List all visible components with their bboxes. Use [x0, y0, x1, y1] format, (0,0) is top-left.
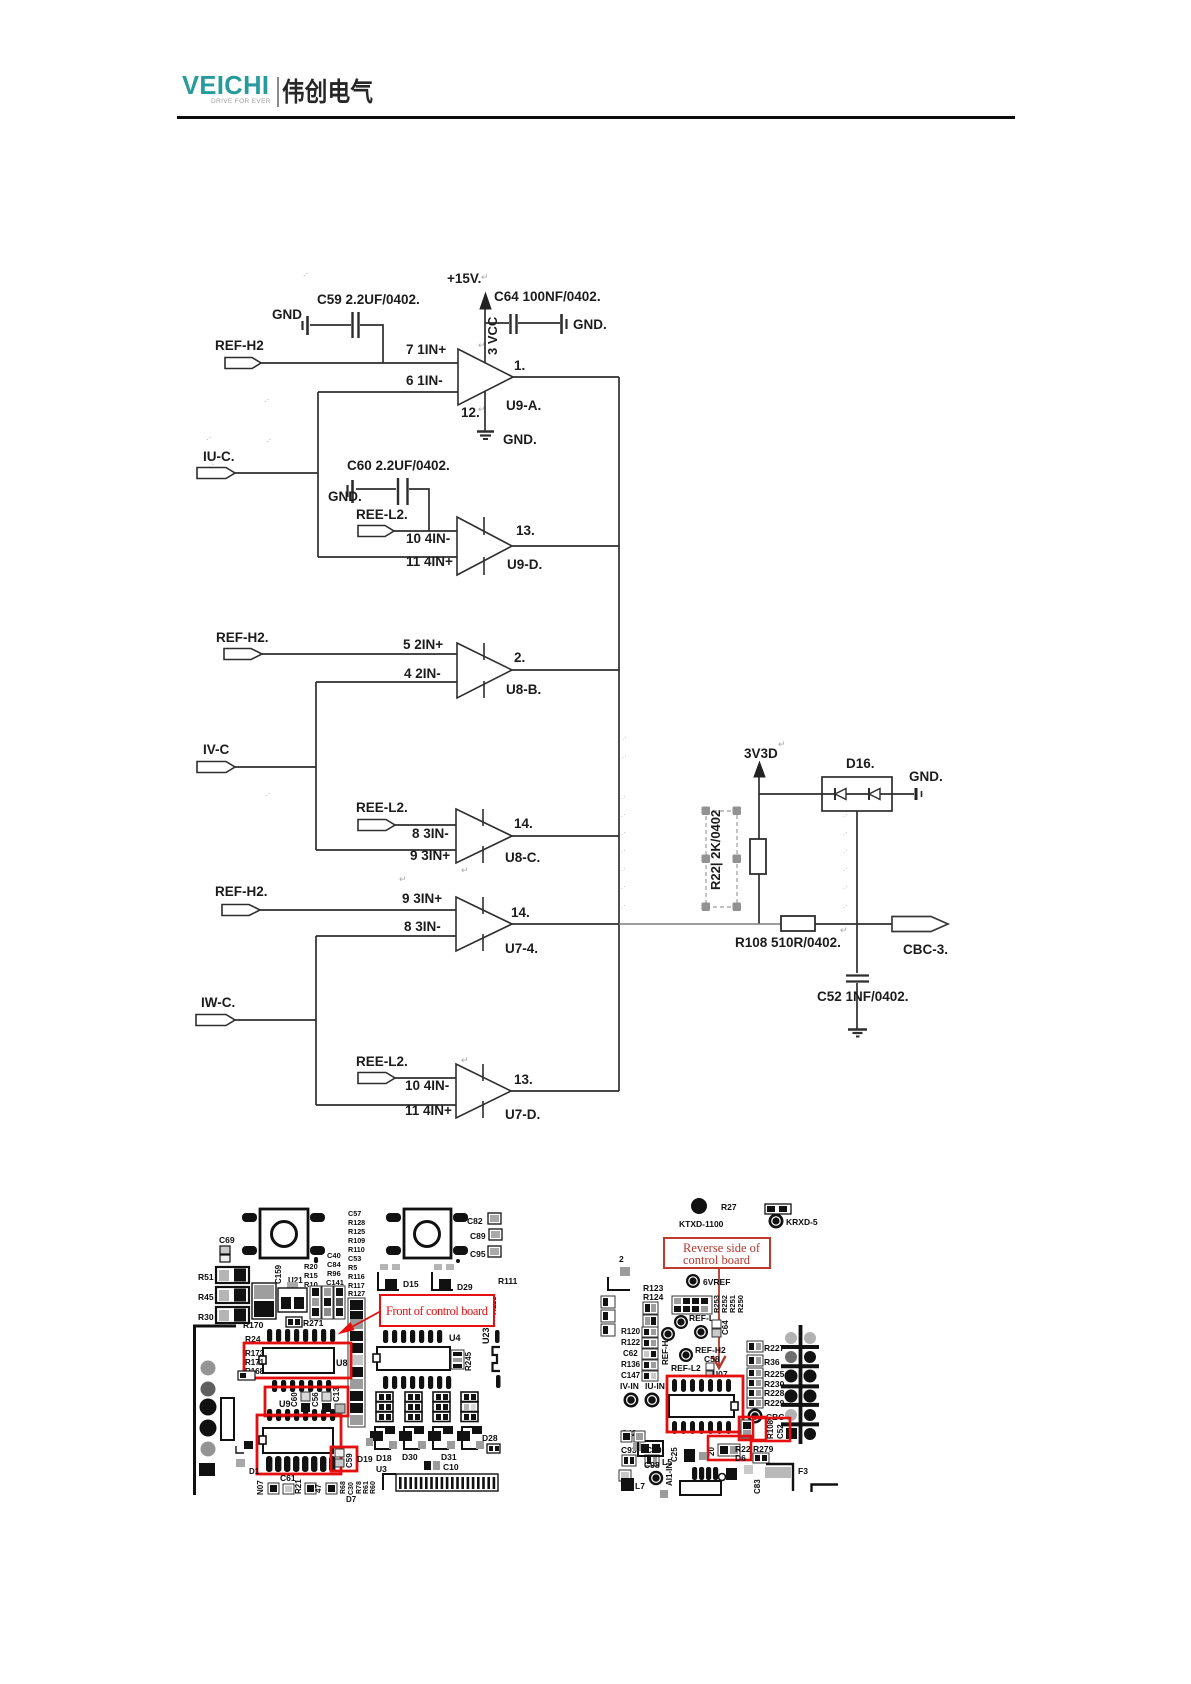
- svg-text:1.: 1.: [514, 358, 525, 373]
- bottom connector comb: [383, 1474, 498, 1491]
- component cluster row C: [433, 1392, 450, 1422]
- svg-text:IU-C.: IU-C.: [203, 449, 235, 464]
- annotation arrow down: [713, 1268, 726, 1368]
- svg-text:C53: C53: [348, 1254, 361, 1263]
- svg-text:R60: R60: [370, 1481, 377, 1494]
- svg-text:C159: C159: [274, 1264, 283, 1284]
- svg-text:.·: .·: [843, 864, 848, 873]
- top resistor component: [721, 1202, 791, 1214]
- push button S1: [242, 1209, 325, 1261]
- component below U8 left: [238, 1371, 255, 1380]
- svg-text:.·: .·: [843, 882, 848, 891]
- resistor R22: [750, 839, 766, 874]
- annotation box C59: [331, 1447, 357, 1471]
- svg-text:11 4IN+: 11 4IN+: [405, 1103, 452, 1118]
- via KRXD-5: [769, 1214, 818, 1229]
- svg-text:↵: ↵: [481, 272, 489, 282]
- capacitor C10: [424, 1461, 459, 1472]
- capacitors C60 C56 inside U9 region: [279, 1387, 345, 1413]
- wire D16 internal: [822, 793, 892, 795]
- svg-text:.·: .·: [843, 810, 848, 819]
- svg-text:U7-D.: U7-D.: [505, 1107, 540, 1122]
- svg-text:R51: R51: [198, 1272, 214, 1282]
- node IW-C: [196, 995, 235, 1026]
- svg-text:R78: R78: [356, 1481, 363, 1494]
- diode row D30 D31 D28: [366, 1426, 500, 1462]
- diode D15: [378, 1264, 419, 1290]
- resistor R51: [198, 1267, 249, 1283]
- svg-text:REE-L2.: REE-L2.: [356, 507, 408, 522]
- svg-text:↵: ↵: [840, 925, 848, 935]
- pad KTXD-1100: [679, 1198, 724, 1229]
- svg-text:C84: C84: [327, 1260, 342, 1269]
- component L-box left: [633, 1441, 672, 1470]
- svg-text:U3: U3: [376, 1464, 387, 1474]
- svg-text:R108 510R/0402.: R108 510R/0402.: [735, 935, 841, 950]
- svg-text:R22| 2K/0402: R22| 2K/0402: [708, 810, 723, 890]
- svg-text:.·: .·: [622, 751, 627, 760]
- transistor U21: [278, 1282, 307, 1312]
- wire REE-L2 to pin8 U8-C: [394, 824, 456, 826]
- svg-text:C82: C82: [467, 1216, 483, 1226]
- svg-text:↵: ↵: [461, 865, 469, 875]
- svg-text:C59: C59: [345, 1453, 354, 1468]
- resistors R123 R124: [643, 1283, 664, 1327]
- svg-text:R36: R36: [764, 1357, 780, 1367]
- bottom passives row: [256, 1473, 377, 1504]
- wire U8-C output: [512, 835, 619, 837]
- IC U8 pin row top: [245, 1329, 335, 1344]
- svg-text:.·: .·: [621, 901, 626, 910]
- svg-text:R21: R21: [294, 1479, 303, 1494]
- resistor R279: [753, 1444, 774, 1463]
- svg-text:C59 2.2UF/0402.: C59 2.2UF/0402.: [317, 292, 420, 307]
- svg-text:C40: C40: [327, 1251, 341, 1260]
- svg-text:R171: R171: [245, 1358, 265, 1367]
- svg-text:R245: R245: [464, 1351, 473, 1371]
- left board connector: [195, 1326, 237, 1495]
- annotation box U8: [244, 1343, 351, 1378]
- svg-text:D29: D29: [457, 1282, 473, 1292]
- IC U4 pin row bottom: [383, 1376, 451, 1389]
- svg-text:.·: .·: [843, 828, 848, 837]
- svg-text:.·: .·: [621, 828, 626, 837]
- header slogan: [211, 99, 271, 106]
- power 3V3D: [744, 746, 778, 777]
- svg-text:U9-D.: U9-D.: [507, 557, 542, 572]
- svg-text:C60: C60: [290, 1392, 299, 1407]
- wire IW-C: [235, 1019, 316, 1021]
- wire U9-D output: [512, 545, 619, 547]
- svg-text:D1: D1: [249, 1467, 260, 1476]
- wire U7-4 output: [512, 923, 619, 925]
- svg-text:Front of control board: Front of control board: [386, 1304, 489, 1318]
- svg-text:IW-C.: IW-C.: [201, 995, 235, 1010]
- svg-text:9 3IN+: 9 3IN+: [402, 891, 442, 906]
- svg-text:R128: R128: [348, 1218, 365, 1227]
- wire VCC through U9-A: [484, 309, 486, 431]
- svg-text:6 1IN-: 6 1IN-: [406, 373, 443, 388]
- svg-text:C98: C98: [644, 1460, 660, 1470]
- svg-text:.·: .·: [621, 792, 626, 801]
- IC U9 pin row: [267, 1409, 335, 1421]
- svg-text:U9: U9: [279, 1399, 291, 1409]
- wire REE-L2 to pin10 U9-D: [394, 530, 457, 532]
- svg-text:13.: 13.: [514, 1072, 533, 1087]
- component cluster row D: [461, 1392, 478, 1422]
- svg-text:.·: .·: [206, 432, 212, 442]
- labels C42 C93 C90: [621, 1428, 662, 1466]
- wire U8-B output: [512, 669, 619, 671]
- svg-text:C52: C52: [776, 1424, 785, 1439]
- svg-text:GND.: GND.: [503, 432, 537, 447]
- wire REF-H2 to pin9 U7-4: [260, 909, 456, 911]
- annotation box R108 C52: [739, 1417, 790, 1441]
- svg-text:7 1IN+: 7 1IN+: [406, 342, 446, 357]
- IC U4 pin row top: [383, 1330, 461, 1343]
- capacitor C64: [494, 289, 607, 334]
- op-amp U7-D: [405, 1064, 540, 1122]
- svg-text:CBC-3.: CBC-3.: [903, 942, 948, 957]
- svg-text:↵: ↵: [461, 1055, 469, 1065]
- svg-text:8 3IN-: 8 3IN-: [404, 919, 441, 934]
- header divider: [277, 77, 279, 107]
- svg-text:↵: ↵: [478, 404, 486, 414]
- svg-text:R109: R109: [348, 1236, 365, 1245]
- svg-text:R122: R122: [621, 1338, 641, 1347]
- op-amp U7-4: [402, 891, 538, 956]
- svg-text:KRXD-5: KRXD-5: [786, 1217, 818, 1227]
- svg-text:R250: R250: [736, 1295, 745, 1313]
- svg-text:REE-L2.: REE-L2.: [356, 800, 408, 815]
- svg-text:R111: R111: [498, 1276, 518, 1286]
- labels D19 D18 U3: [357, 1453, 392, 1474]
- wire U9-A output: [513, 376, 619, 378]
- push button S2: [386, 1209, 468, 1263]
- svg-text:R136: R136: [621, 1360, 641, 1369]
- svg-text:U4: U4: [449, 1333, 461, 1343]
- svg-text:.·: .·: [621, 846, 626, 855]
- IC U3 body: [259, 1428, 333, 1453]
- resistor R45: [198, 1287, 249, 1303]
- wire C64 tap: [485, 322, 560, 324]
- wire D16 to GND port: [892, 793, 914, 795]
- wire REE-L2 to pin10 U7-D: [394, 1077, 456, 1079]
- svg-text:C52 1NF/0402.: C52 1NF/0402.: [817, 989, 909, 1004]
- svg-text:.·: .·: [265, 788, 271, 798]
- wire D16 center drop to C52: [856, 794, 858, 1029]
- svg-text:REF-L: REF-L: [689, 1313, 714, 1323]
- GND port right of D16: [909, 769, 943, 800]
- annotation box U3: [257, 1415, 341, 1474]
- header rule: [177, 116, 1015, 119]
- IC U7 pin row top: [672, 1379, 731, 1392]
- svg-text:N07: N07: [256, 1480, 265, 1495]
- svg-text:5 2IN+: 5 2IN+: [403, 637, 443, 652]
- node REF-H2 (3): [215, 884, 268, 916]
- annotation label front of control board: [380, 1295, 494, 1326]
- svg-text:R27: R27: [721, 1202, 737, 1212]
- svg-text:GND.: GND.: [573, 317, 607, 332]
- svg-text:R125: R125: [348, 1227, 365, 1236]
- label column R120..C147: [621, 1327, 658, 1381]
- left small component rows: [619, 1431, 645, 1481]
- svg-text:R45: R45: [198, 1292, 214, 1302]
- wire pin11 U9-D: [318, 556, 457, 558]
- annotation arrow to U8: [348, 1311, 381, 1329]
- node IV-C: [197, 742, 235, 773]
- svg-text:6VREF: 6VREF: [703, 1277, 730, 1287]
- svg-text:.·: .·: [843, 846, 848, 855]
- ground under U9-A: [477, 432, 537, 448]
- resistor column R227 R36 R225 R230 R228 R229: [747, 1341, 785, 1408]
- svg-text:D6: D6: [735, 1453, 746, 1463]
- svg-text:↵: ↵: [399, 874, 407, 884]
- svg-text:R228: R228: [764, 1388, 785, 1398]
- wire IW-C vertical bus: [315, 936, 317, 1105]
- svg-text:U8-C.: U8-C.: [505, 850, 540, 865]
- svg-text:R127: R127: [348, 1289, 365, 1298]
- svg-text:R30: R30: [198, 1312, 214, 1322]
- svg-text:REF-H2.: REF-H2.: [216, 630, 269, 645]
- IC U3 pin row bottom: [266, 1456, 335, 1472]
- svg-text:R225: R225: [764, 1369, 785, 1379]
- svg-text:control board: control board: [683, 1253, 751, 1267]
- capacitor C60: [328, 458, 450, 505]
- formatting mark columns: [621, 733, 848, 910]
- svg-text:↵: ↵: [478, 340, 486, 350]
- svg-text:.·: .·: [621, 864, 626, 873]
- silk label column R20 R15 R10: [304, 1259, 318, 1289]
- wire pin11 U7-D: [316, 1104, 456, 1106]
- svg-text:C95: C95: [470, 1249, 486, 1259]
- svg-text:.·: .·: [843, 901, 848, 910]
- svg-text:2.: 2.: [514, 650, 525, 665]
- svg-text:R68: R68: [340, 1481, 347, 1494]
- svg-text:REF-H2.: REF-H2.: [215, 884, 268, 899]
- IC U8 pin row bottom: [272, 1380, 331, 1392]
- svg-text:GND: GND: [272, 307, 302, 322]
- node REF-H2 (1): [215, 338, 264, 369]
- annotation label reverse side of control board: [664, 1238, 770, 1268]
- svg-text:D16.: D16.: [846, 756, 875, 771]
- diode D29: [432, 1264, 473, 1292]
- annotation box U7: [667, 1376, 743, 1432]
- wire bus to R108 (light): [619, 923, 781, 925]
- via REF-H2 C58: [679, 1345, 728, 1379]
- wire D16 left lead: [759, 793, 822, 795]
- svg-text:U9-A.: U9-A.: [506, 398, 541, 413]
- vias IV-IN IU-IN: [620, 1381, 665, 1408]
- svg-text:R20: R20: [304, 1262, 318, 1271]
- svg-text:C64 100NF/0402.: C64 100NF/0402.: [494, 289, 601, 304]
- svg-text:U23: U23: [481, 1327, 491, 1344]
- svg-text:U8: U8: [336, 1358, 348, 1368]
- capacitors C82 C89 C95: [467, 1213, 502, 1259]
- wire pin6 U9-A: [318, 391, 458, 393]
- svg-text:R110: R110: [348, 1245, 365, 1254]
- svg-text:KTXD-1100: KTXD-1100: [679, 1219, 724, 1229]
- svg-text:C83: C83: [753, 1479, 762, 1494]
- svg-text:47: 47: [314, 1484, 323, 1493]
- capacitor C59: [272, 292, 420, 338]
- svg-text:D30: D30: [402, 1452, 418, 1462]
- wire IU-C vertical bus: [317, 392, 319, 557]
- svg-text:R5: R5: [348, 1263, 357, 1272]
- node CBC-3: [892, 917, 948, 958]
- node REE-L2 (2): [356, 800, 408, 831]
- svg-text:R61: R61: [363, 1481, 370, 1494]
- resistor R271: [286, 1317, 324, 1328]
- resistor R108: [735, 916, 841, 950]
- svg-text:R108: R108: [766, 1419, 775, 1439]
- fuse F3: [765, 1464, 838, 1492]
- svg-text:3 VCC: 3 VCC: [485, 316, 500, 355]
- via CBC: [748, 1409, 785, 1424]
- silk label column C57..R127: [348, 1209, 365, 1298]
- svg-text:C60 2.2UF/0402.: C60 2.2UF/0402.: [347, 458, 450, 473]
- svg-text:3V3D: 3V3D: [744, 746, 778, 761]
- svg-text:C57: C57: [348, 1209, 361, 1218]
- node REE-L2 (1): [356, 507, 408, 537]
- capacitor C25: [670, 1447, 707, 1462]
- inductor L7: [621, 1478, 645, 1491]
- svg-text:.·: .·: [209, 459, 215, 469]
- svg-text:AI1-IN: AI1-IN: [665, 1463, 674, 1486]
- svg-text:D15: D15: [403, 1279, 419, 1289]
- header logo VEICHI: [182, 74, 269, 100]
- svg-text:10 4IN-: 10 4IN-: [405, 1078, 449, 1093]
- svg-text:C147: C147: [621, 1371, 641, 1380]
- op-amp U9-D: [406, 517, 542, 575]
- component strip column: [348, 1298, 365, 1427]
- resistor R30: [198, 1307, 249, 1323]
- wire REF-H2 to pin5 U8-B: [262, 653, 457, 655]
- IC U7 body: [669, 1395, 738, 1417]
- svg-text:C56: C56: [311, 1392, 320, 1407]
- svg-text:IU-IN: IU-IN: [645, 1381, 665, 1391]
- svg-text:12.: 12.: [461, 405, 480, 420]
- svg-text:IV-IN: IV-IN: [620, 1381, 639, 1391]
- svg-text:C10: C10: [443, 1462, 459, 1472]
- svg-text:R96: R96: [327, 1269, 341, 1278]
- svg-text:C13: C13: [332, 1387, 341, 1402]
- svg-text:R170: R170: [243, 1320, 264, 1330]
- svg-text:D28: D28: [482, 1433, 498, 1443]
- svg-text:REF-H2: REF-H2: [215, 338, 264, 353]
- svg-text:U7-4.: U7-4.: [505, 941, 538, 956]
- IC U7 pin row bottom: [672, 1421, 731, 1434]
- svg-text:GND.: GND.: [909, 769, 943, 784]
- component array near U21: [310, 1286, 345, 1319]
- label R111 rotated: [489, 1276, 518, 1315]
- wire pin4 U8-B: [316, 681, 457, 683]
- node REF-H2 (2): [216, 630, 269, 660]
- svg-text:R120: R120: [621, 1327, 641, 1336]
- svg-text:↵: ↵: [778, 739, 786, 749]
- svg-text:.·: .·: [303, 268, 309, 278]
- svg-text:C64: C64: [721, 1320, 730, 1335]
- via 6VREF: [686, 1274, 730, 1288]
- node IU-C: [197, 449, 235, 479]
- op-amp U8-C: [410, 809, 540, 865]
- wire pin9 U8-C: [316, 849, 456, 851]
- wire 3V3D rail: [758, 777, 760, 924]
- formatting marks: [206, 268, 848, 1065]
- label C83: [744, 1465, 762, 1494]
- svg-text:U07: U07: [712, 1369, 728, 1379]
- component cluster row B: [405, 1392, 422, 1422]
- svg-text:IV-C: IV-C: [203, 742, 230, 757]
- svg-text:D18: D18: [376, 1453, 392, 1463]
- svg-text:REF-L2: REF-L2: [671, 1363, 701, 1373]
- svg-text:D19: D19: [357, 1454, 373, 1464]
- svg-text:10 4IN-: 10 4IN-: [406, 531, 450, 546]
- svg-text:.·: .·: [622, 733, 627, 742]
- resistor array R253-R250: [672, 1295, 745, 1323]
- op-amp U9-A: [406, 342, 541, 420]
- svg-text:C89: C89: [470, 1231, 486, 1241]
- wire IV-C: [235, 766, 316, 768]
- svg-text:11 4IN+: 11 4IN+: [406, 554, 453, 569]
- IC U8 body: [245, 1348, 348, 1376]
- ground under C52: [848, 1030, 867, 1037]
- svg-text:R124: R124: [643, 1292, 664, 1302]
- capacitor C52: [817, 976, 909, 1005]
- wire IU-C: [235, 472, 318, 474]
- svg-text:9 3IN+: 9 3IN+: [410, 848, 450, 863]
- edge connector pads: [781, 1325, 819, 1444]
- svg-text:R116: R116: [348, 1272, 365, 1281]
- diode pack D16: [822, 756, 892, 811]
- resistor R245: [451, 1350, 473, 1371]
- electrolytic component near R170: [243, 1283, 276, 1330]
- wire R108 to CBC-3: [815, 923, 892, 925]
- wire pin8 U7-4: [316, 935, 456, 937]
- diode D1x: [236, 1441, 260, 1476]
- power +15V: [447, 271, 491, 309]
- svg-text:+15V.: +15V.: [447, 271, 481, 286]
- selection box around R22: [702, 807, 742, 912]
- svg-text:C69: C69: [219, 1235, 235, 1245]
- svg-text:C62: C62: [623, 1349, 638, 1358]
- svg-text:8 3IN-: 8 3IN-: [412, 826, 449, 841]
- wire REF-H2 to pin7 U9-A: [261, 362, 458, 364]
- svg-text:D31: D31: [441, 1452, 457, 1462]
- svg-text:14.: 14.: [514, 816, 533, 831]
- svg-text:GND.: GND.: [328, 489, 362, 504]
- svg-text:.·: .·: [264, 394, 270, 404]
- svg-text:13.: 13.: [516, 523, 535, 538]
- wire C60 branch: [356, 489, 429, 531]
- svg-text:.·: .·: [266, 434, 272, 444]
- bottom white box: [680, 1481, 721, 1495]
- svg-text:L7: L7: [635, 1481, 645, 1491]
- node REE-L2 (3): [356, 1054, 408, 1084]
- svg-text:REF-H: REF-H: [661, 1340, 670, 1365]
- svg-text:14.: 14.: [511, 905, 530, 920]
- vias REF-H: [661, 1315, 708, 1365]
- svg-text:.·: .·: [621, 810, 626, 819]
- svg-text:.·: .·: [621, 882, 626, 891]
- component cluster row A: [376, 1392, 393, 1422]
- svg-text:R173: R173: [245, 1349, 265, 1358]
- svg-text:C30: C30: [348, 1482, 355, 1495]
- wire output bus: [618, 377, 620, 1091]
- svg-text:2: 2: [619, 1254, 624, 1264]
- IC U4 body: [373, 1347, 450, 1370]
- left edge parts: [601, 1254, 630, 1336]
